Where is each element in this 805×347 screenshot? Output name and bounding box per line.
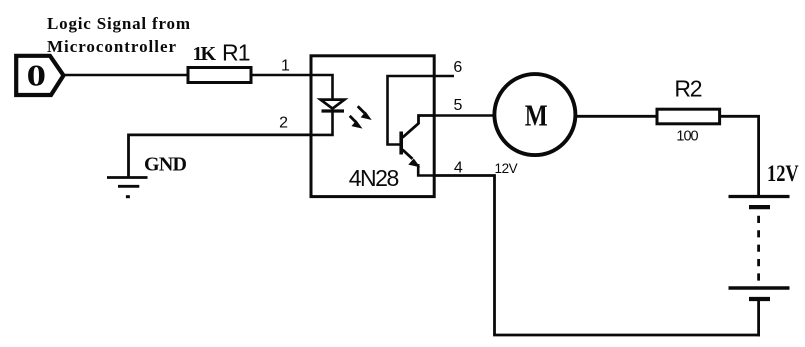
wire: source to R1 (64, 74, 190, 77)
svg-text:6: 6 (453, 59, 462, 76)
label: Logic Signal from Microcontroller (47, 14, 190, 56)
signal source tag "0" (16, 56, 63, 95)
light arrow (upper) (358, 106, 370, 119)
LED cathode wire (pin 2 internal) (311, 112, 333, 135)
svg-text:Microcontroller: Microcontroller (47, 37, 176, 56)
resistor R2 (657, 109, 720, 124)
ground symbol (107, 178, 148, 199)
optocoupler U1 4N28 body (311, 56, 434, 197)
phototransistor emitter with arrow (403, 150, 435, 176)
motor M1 (494, 74, 575, 155)
pin 6 stub wire (434, 75, 454, 78)
svg-text:M: M (525, 97, 548, 132)
light arrow (lower) (350, 116, 361, 128)
bottom return wire (493, 334, 760, 337)
svg-text:GND: GND (144, 154, 187, 176)
svg-text:4N28: 4N28 (349, 165, 400, 191)
wire: R1 to optocoupler pin 1 (251, 74, 312, 77)
phototransistor base bar (399, 132, 403, 155)
svg-text:0: 0 (27, 58, 46, 92)
svg-text:5: 5 (453, 97, 462, 114)
wire: motor to R2 (575, 115, 658, 118)
LED D1 (321, 100, 345, 111)
svg-text:R2: R2 (674, 76, 702, 102)
pin 4 wire (434, 176, 495, 336)
LED anode wire (pin 1 internal) (311, 75, 333, 100)
phototransistor collector (403, 116, 435, 138)
pin 2 wire to ground (129, 135, 312, 177)
pin 5 wire to motor (434, 114, 495, 117)
svg-text:12V: 12V (495, 161, 518, 176)
svg-text:1: 1 (281, 58, 290, 75)
svg-text:Logic Signal from: Logic Signal from (47, 14, 190, 33)
resistor R1 (188, 68, 251, 83)
svg-text:4: 4 (454, 160, 463, 177)
svg-text:12V: 12V (767, 161, 799, 186)
svg-text:2: 2 (279, 115, 288, 132)
svg-text:R1: R1 (222, 40, 251, 66)
svg-text:100: 100 (676, 129, 698, 145)
battery BT1 12V (729, 197, 790, 337)
phototransistor Q1: base wire from pin 6 (388, 76, 435, 145)
wire: R2 to battery top (720, 116, 759, 195)
svg-text:1K: 1K (193, 43, 217, 65)
